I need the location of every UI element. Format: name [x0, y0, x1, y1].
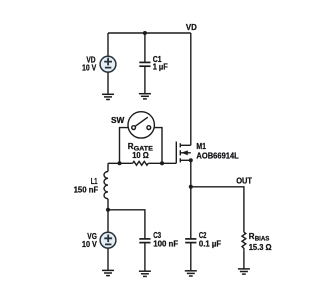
transistor M1 (NMOS) — [176, 142, 191, 164]
ground (VD) — [102, 94, 114, 99]
svg-text:AOB66914L: AOB66914L — [196, 151, 238, 160]
node junction OUT — [189, 185, 193, 189]
node junction L1 / VG / C3 — [106, 208, 110, 212]
inductor L1 — [104, 163, 108, 210]
svg-text:10 V: 10 V — [82, 240, 98, 249]
wire switch left leg — [120, 128, 129, 164]
svg-text:10 Ω: 10 Ω — [132, 151, 149, 160]
wire node to C3 — [108, 210, 145, 239]
resistor RGATE — [133, 161, 149, 165]
svg-text:VD: VD — [186, 23, 197, 32]
wire VD source bottom lead — [107, 72, 109, 94]
wire source vertical to OUT and C2 — [190, 160, 192, 239]
svg-text:SW: SW — [111, 116, 125, 125]
svg-text:100 nF: 100 nF — [153, 240, 178, 249]
ground (C2) — [185, 271, 197, 276]
svg-text:15.3 Ω: 15.3 Ω — [249, 243, 272, 252]
svg-text:150 nF: 150 nF — [74, 185, 99, 194]
svg-text:10 V: 10 V — [82, 63, 97, 72]
ground (C1) — [139, 94, 151, 99]
wire gate rail — [108, 162, 133, 164]
svg-text:BIAS: BIAS — [255, 236, 270, 243]
wire gate rail right — [148, 162, 176, 164]
ground (VG) — [102, 270, 114, 275]
switch SW — [128, 112, 154, 138]
node junction M1 source/body — [189, 158, 193, 162]
wire RBIAS bottom lead — [243, 250, 245, 269]
capacitor C3 — [139, 239, 150, 271]
wire OUT — [191, 187, 244, 232]
svg-text:OUT: OUT — [236, 177, 252, 186]
node junction right of RGATE — [160, 161, 164, 165]
node junction top rail to C1 — [143, 31, 147, 35]
svg-text:0.1 µF: 0.1 µF — [199, 239, 221, 248]
capacitor C1 — [139, 33, 150, 94]
wire switch right leg — [154, 128, 162, 164]
wire top rail VD — [108, 32, 191, 34]
svg-text:M1: M1 — [196, 142, 206, 151]
node junction left of RGATE — [118, 161, 122, 165]
wire VD source top lead — [107, 33, 109, 56]
voltage source VG — [100, 210, 116, 271]
ground (RBIAS) — [238, 269, 250, 274]
ground (C3) — [139, 271, 151, 276]
wire drain vertical — [190, 33, 192, 145]
capacitor C2 — [185, 239, 196, 271]
voltage source VD — [100, 56, 116, 72]
svg-text:1 µF: 1 µF — [153, 62, 168, 71]
resistor RBIAS — [242, 232, 246, 250]
